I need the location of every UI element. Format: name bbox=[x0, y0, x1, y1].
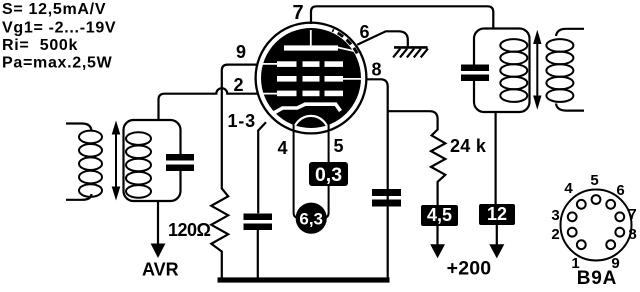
svg-text:6,3: 6,3 bbox=[299, 210, 323, 229]
svg-text:6: 6 bbox=[360, 22, 370, 42]
svg-text:+200: +200 bbox=[447, 258, 492, 280]
svg-text:7: 7 bbox=[628, 206, 636, 223]
svg-text:Vg1= -2...-19V: Vg1= -2...-19V bbox=[2, 20, 116, 37]
svg-text:5: 5 bbox=[590, 172, 598, 189]
svg-text:5: 5 bbox=[334, 136, 344, 156]
svg-text:4: 4 bbox=[278, 138, 288, 158]
svg-text:3: 3 bbox=[551, 207, 559, 224]
svg-text:24 k: 24 k bbox=[450, 136, 487, 156]
svg-text:12: 12 bbox=[487, 204, 507, 224]
svg-text:2: 2 bbox=[551, 226, 559, 243]
svg-text:7: 7 bbox=[293, 2, 304, 24]
svg-text:4: 4 bbox=[564, 180, 573, 197]
svg-text:120Ω: 120Ω bbox=[168, 220, 211, 240]
svg-text:4,5: 4,5 bbox=[427, 205, 452, 225]
svg-text:6: 6 bbox=[616, 182, 624, 199]
svg-text:Ri= 500k: Ri= 500k bbox=[2, 37, 78, 54]
svg-text:9: 9 bbox=[236, 42, 246, 62]
svg-text:B9A: B9A bbox=[577, 268, 617, 287]
svg-text:Pa=max.2,5W: Pa=max.2,5W bbox=[2, 55, 113, 72]
svg-text:8: 8 bbox=[372, 60, 382, 80]
svg-text:1-3: 1-3 bbox=[228, 111, 256, 131]
svg-text:0,3: 0,3 bbox=[315, 164, 342, 186]
svg-text:2: 2 bbox=[234, 75, 244, 95]
svg-text:AVR: AVR bbox=[142, 260, 179, 280]
svg-text:S= 12,5mA/V: S= 12,5mA/V bbox=[2, 1, 106, 18]
svg-text:8: 8 bbox=[628, 226, 636, 243]
